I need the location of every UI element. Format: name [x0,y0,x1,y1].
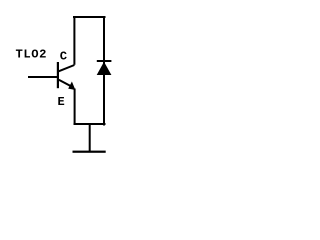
wire diode vertical [103,16,105,126]
wire bottom horizontal [74,123,106,125]
transistor Q1 emitter diagonal [59,80,72,87]
transistor Q1 emitter arrowhead [68,82,75,91]
svg-text:C: C [60,50,67,64]
wire ground stub [89,124,91,152]
wire top horizontal [73,16,106,18]
wire base lead [28,76,57,78]
wire emitter vertical [74,89,76,126]
transistor Q1 base bar [57,62,59,88]
ground [73,151,106,153]
transistor Q1 collector diagonal [59,65,75,71]
diode D1 triangle [97,62,112,75]
diode D1 cathode bar [97,60,112,62]
wire collector vertical [73,16,75,65]
svg-text:E: E [58,95,65,109]
svg-text:TLO2: TLO2 [16,48,47,62]
